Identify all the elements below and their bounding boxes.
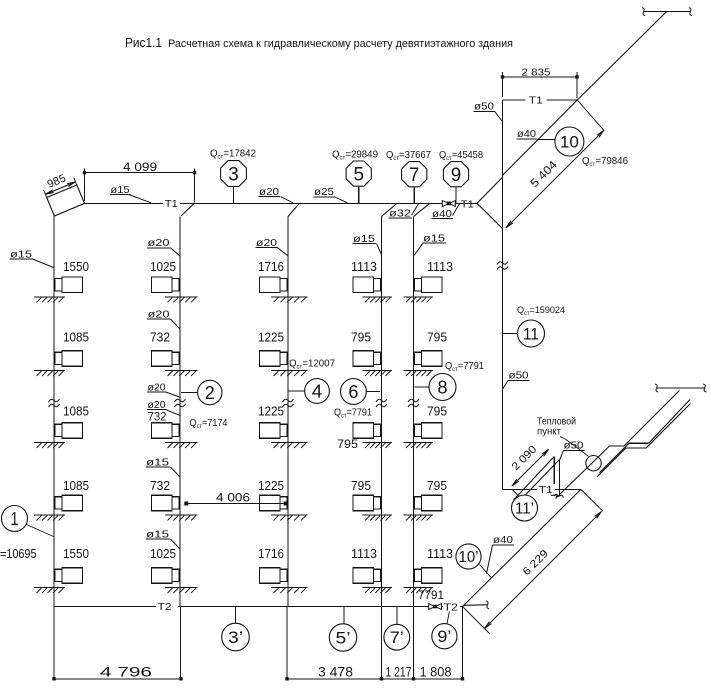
svg-text:1113: 1113 (427, 260, 453, 274)
svg-text:Расчетная схема к гидравлическ: Расчетная схема к гидравлическому расчет… (168, 38, 513, 50)
svg-text:ø20: ø20 (148, 308, 170, 320)
svg-text:795: 795 (427, 331, 447, 345)
svg-text:Qст=7174: Qст=7174 (190, 417, 228, 430)
svg-text:5’: 5’ (336, 629, 351, 647)
svg-text:4: 4 (312, 381, 323, 401)
svg-text:1225: 1225 (258, 331, 284, 345)
svg-text:T2: T2 (158, 601, 172, 613)
svg-text:ø15: ø15 (111, 184, 130, 196)
svg-text:ø20: ø20 (148, 381, 166, 393)
svg-text:Qст=37667: Qст=37667 (386, 149, 431, 162)
svg-text:3: 3 (228, 164, 239, 185)
svg-text:ø15: ø15 (10, 248, 32, 260)
svg-text:ø50: ø50 (564, 440, 584, 452)
svg-text:8: 8 (438, 377, 448, 397)
svg-text:7’: 7’ (390, 629, 404, 647)
svg-text:4 006: 4 006 (216, 491, 250, 505)
svg-text:6 229: 6 229 (521, 548, 551, 578)
svg-text:985: 985 (46, 172, 68, 190)
svg-text:1085: 1085 (63, 331, 89, 345)
svg-text:1225: 1225 (258, 479, 284, 493)
svg-text:4 796: 4 796 (100, 664, 152, 680)
svg-text:732: 732 (148, 409, 167, 423)
svg-text:1025: 1025 (150, 260, 176, 274)
svg-text:11’: 11’ (515, 501, 534, 518)
svg-text:Qст=45458: Qст=45458 (439, 149, 483, 162)
svg-text:2 835: 2 835 (522, 66, 551, 78)
svg-text:ø15: ø15 (146, 528, 169, 540)
svg-text:ø15: ø15 (146, 456, 169, 468)
svg-text:ø20: ø20 (148, 399, 166, 411)
svg-text:795: 795 (351, 479, 371, 493)
svg-text:ø40: ø40 (432, 208, 452, 220)
svg-text:=10695: =10695 (0, 546, 37, 561)
svg-text:7791: 7791 (418, 588, 444, 602)
svg-text:1085: 1085 (63, 405, 89, 419)
svg-text:7: 7 (409, 165, 419, 186)
svg-text:795: 795 (427, 479, 447, 493)
svg-text:1716: 1716 (258, 547, 284, 561)
svg-text:T1: T1 (461, 198, 474, 210)
svg-text:ø50: ø50 (509, 370, 529, 382)
svg-text:4 099: 4 099 (123, 160, 157, 174)
svg-text:Qст=12007: Qст=12007 (289, 358, 335, 371)
svg-text:T2: T2 (444, 601, 458, 613)
svg-text:5: 5 (353, 164, 364, 185)
svg-text:1: 1 (11, 509, 19, 529)
svg-text:ø15: ø15 (423, 232, 445, 244)
svg-text:T1: T1 (165, 198, 178, 210)
svg-text:2 090: 2 090 (510, 443, 540, 473)
svg-text:732: 732 (150, 479, 170, 493)
svg-text:Qст=7791: Qст=7791 (445, 360, 484, 373)
svg-text:ø20: ø20 (259, 186, 279, 198)
svg-text:2: 2 (205, 383, 215, 403)
svg-text:Qст=7791: Qст=7791 (334, 407, 372, 420)
svg-text:9: 9 (451, 165, 462, 186)
svg-text:795: 795 (427, 405, 447, 419)
svg-text:5 404: 5 404 (529, 159, 561, 191)
svg-text:Qст=159024: Qст=159024 (517, 305, 566, 317)
svg-text:1025: 1025 (150, 547, 176, 561)
svg-text:ø20: ø20 (148, 237, 170, 249)
svg-text:3’: 3’ (228, 629, 243, 647)
svg-text:ø20: ø20 (256, 237, 277, 249)
svg-text:Рис1.1: Рис1.1 (125, 35, 162, 50)
svg-text:ø15: ø15 (353, 233, 375, 245)
svg-text:T1: T1 (529, 95, 543, 107)
svg-text:1113: 1113 (351, 547, 377, 561)
svg-text:795: 795 (351, 331, 371, 345)
svg-text:9’: 9’ (437, 628, 451, 646)
svg-text:3 478: 3 478 (318, 665, 353, 680)
svg-text:1225: 1225 (258, 405, 284, 419)
svg-text:ø40: ø40 (517, 128, 536, 140)
svg-text:ø50: ø50 (474, 101, 494, 113)
svg-text:T1: T1 (539, 484, 553, 496)
svg-text:1113: 1113 (351, 260, 377, 274)
svg-text:ø32: ø32 (389, 207, 411, 219)
svg-text:1550: 1550 (63, 260, 89, 274)
svg-text:пункт: пункт (537, 427, 561, 438)
svg-text:1085: 1085 (63, 479, 89, 493)
svg-text:6: 6 (348, 382, 358, 402)
svg-text:Qст=29849: Qст=29849 (332, 149, 378, 162)
svg-text:1113: 1113 (427, 547, 453, 561)
svg-text:Qст=79846: Qст=79846 (582, 155, 628, 168)
svg-text:ø40: ø40 (493, 534, 513, 546)
svg-text:10’: 10’ (459, 549, 479, 566)
svg-text:795: 795 (337, 437, 358, 451)
svg-text:Qст=17842: Qст=17842 (210, 148, 256, 161)
svg-text:1716: 1716 (258, 260, 284, 274)
svg-text:11: 11 (523, 325, 539, 344)
svg-text:ø25: ø25 (314, 186, 334, 198)
svg-text:1 808: 1 808 (420, 665, 452, 680)
svg-text:732: 732 (150, 331, 170, 345)
svg-text:10: 10 (560, 133, 579, 152)
svg-text:1 217: 1 217 (386, 665, 412, 680)
svg-text:1550: 1550 (63, 547, 89, 561)
